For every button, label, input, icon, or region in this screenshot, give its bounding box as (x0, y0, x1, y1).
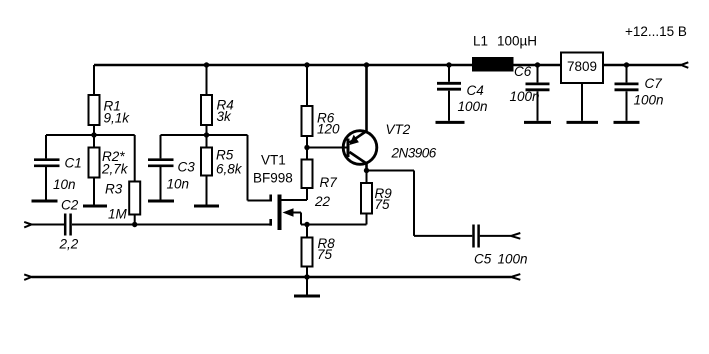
supply output terminal (681, 62, 688, 68)
ground under C7 (614, 121, 640, 124)
node VT2 collector (364, 168, 369, 173)
resistor R6 (302, 65, 313, 148)
resistor R8 (302, 225, 313, 277)
emitter (350, 65, 367, 143)
capacitor C3 (148, 135, 174, 200)
ground under C4 (436, 121, 465, 124)
node C4 top (446, 62, 451, 67)
svg-text:9,1k: 9,1k (104, 111, 131, 126)
svg-text:C3: C3 (178, 160, 196, 175)
node R1/R2 (91, 132, 96, 137)
svg-text:VT1: VT1 (261, 153, 286, 168)
gate1 bar (269, 219, 272, 226)
svg-text:C5: C5 (474, 252, 492, 267)
svg-text:C1: C1 (65, 156, 82, 171)
capacitor C4 (437, 65, 461, 121)
wire R8 to ground (306, 277, 308, 295)
svg-text:7809: 7809 (567, 59, 597, 74)
svg-text:6,8k: 6,8k (216, 162, 243, 177)
capacitor C6 (526, 65, 550, 121)
wire source line to R8/R9 (301, 224, 367, 226)
wire C1-R2-R3 bias line (46, 134, 135, 136)
svg-text:100n: 100n (458, 99, 488, 114)
output terminal (bottom rail) (511, 274, 520, 280)
svg-text:22: 22 (314, 194, 331, 209)
emitter arrow (349, 135, 359, 145)
ground under 7809 (567, 121, 599, 124)
svg-text:120: 120 (317, 122, 340, 137)
svg-text:100n: 100n (634, 93, 664, 108)
resistor R5 (201, 135, 212, 205)
ground under R5 (194, 205, 219, 208)
svg-text:2,7k: 2,7k (101, 162, 129, 177)
resistor R9 (361, 171, 372, 225)
svg-text:VT2: VT2 (386, 122, 411, 137)
wire C5 to output (480, 235, 511, 237)
inductor L1 (472, 57, 514, 72)
ground under R2 (83, 205, 107, 208)
node C7 top (624, 62, 629, 67)
svg-text:C6: C6 (514, 64, 532, 79)
svg-text:75: 75 (317, 247, 333, 262)
transistor VT2 (307, 65, 377, 171)
svg-text:C7: C7 (645, 76, 663, 91)
channel bar (278, 195, 282, 231)
capacitor C5 (474, 225, 479, 248)
wire bottom common rail (32, 276, 512, 278)
ground under R8 (294, 295, 320, 298)
wire collector junction to C5 (367, 171, 473, 236)
wire input line after C2 (72, 224, 270, 226)
base bar (347, 139, 350, 158)
svg-text:R5: R5 (216, 148, 234, 163)
resistor R3 (129, 135, 140, 225)
node R4/R5 (204, 132, 209, 137)
node R3 bottom (132, 222, 137, 227)
source wire (288, 213, 301, 225)
svg-text:C2: C2 (61, 198, 79, 213)
svg-text:2N3906: 2N3906 (391, 146, 437, 161)
node R8 bottom (304, 274, 309, 279)
svg-text:L1: L1 (473, 34, 488, 49)
svg-text:R7: R7 (320, 175, 338, 190)
capacitor C2 (65, 214, 70, 236)
svg-text:100n: 100n (510, 89, 540, 104)
node VT2 emitter (364, 62, 369, 67)
wire C3-R5 bias line to gate2 (161, 135, 270, 201)
resistor R2 (89, 135, 100, 205)
svg-text:100n: 100n (498, 252, 528, 267)
gate2 bar (269, 195, 272, 202)
svg-text:10n: 10n (167, 177, 190, 192)
node R6 top (304, 62, 309, 67)
collector (350, 152, 367, 171)
resistor R1 (89, 65, 100, 135)
ground under C1 (32, 200, 58, 203)
resistor R4 (201, 65, 212, 135)
node C6 top (535, 62, 540, 67)
svg-text:BF998: BF998 (253, 171, 293, 186)
base wire (307, 147, 347, 149)
svg-text:R3: R3 (105, 182, 123, 197)
wire 7809 ground pin (581, 83, 583, 121)
ground under C6 (524, 121, 551, 124)
svg-text:+12...15 В: +12...15 В (625, 24, 687, 39)
input terminal (signal) (24, 222, 31, 228)
ground under C3 (148, 200, 174, 203)
capacitor C1 (34, 135, 60, 200)
svg-text:3k: 3k (217, 109, 233, 124)
source arrow (283, 208, 294, 216)
svg-text:10n: 10n (53, 177, 76, 192)
wire input line (32, 224, 65, 226)
wire top supply rail (94, 64, 681, 66)
node R4 top (204, 62, 209, 67)
svg-text:C4: C4 (467, 83, 484, 98)
regulator 7809 (561, 53, 603, 84)
svg-text:1M: 1M (108, 207, 128, 222)
svg-text:100µH: 100µH (497, 34, 537, 49)
node R6/R7 (304, 145, 309, 150)
capacitor C7 (615, 65, 639, 121)
drain wire (282, 199, 308, 201)
input terminal (bottom rail) (24, 274, 31, 280)
transistor VT1 dual-gate MOSFET (271, 195, 307, 231)
svg-text:75: 75 (375, 197, 391, 212)
resistor R7 (302, 148, 313, 201)
node R8 top (304, 222, 309, 227)
svg-text:2,2: 2,2 (59, 237, 79, 252)
output terminal (signal) (511, 233, 520, 239)
